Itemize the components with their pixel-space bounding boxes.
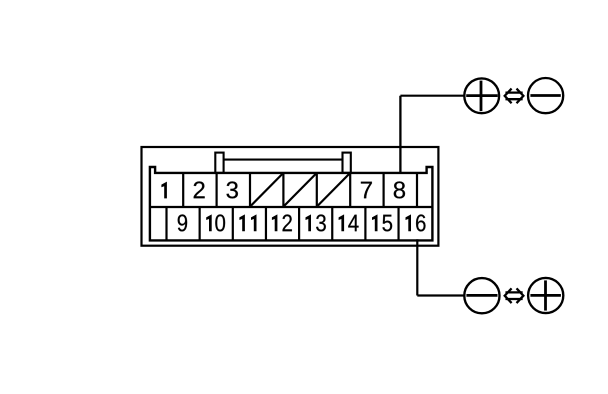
wire to battery minus (horizontal) [417,294,464,296]
bottom row cell borders [167,207,399,240]
wire from pin 16 (vertical) [416,239,418,295]
pin 11 label [239,214,245,231]
pin row divider [150,206,433,208]
terminal circle minus (top) [528,78,563,113]
minus sign (bottom) [466,294,497,297]
plus sign (bottom) [544,280,547,310]
latch left post [215,153,223,173]
pin 15 label digit 1 [372,214,378,231]
pin 15 label digit 5 [382,215,392,232]
pin 13 label digit 1 [306,214,312,231]
wire to battery positive (horizontal) [400,95,464,97]
pin 12 label digit 1 [272,214,278,231]
pin 7 label [361,182,372,199]
pin 16 label digit 6 [416,214,425,231]
wire from pin 8 (vertical) [399,96,401,173]
pin 16 label digit 1 [406,214,412,231]
plus sign (top) [480,81,483,112]
blocked cavity 6 diagonal [318,174,349,206]
double arrow (bottom) [505,289,524,302]
latch bar [224,159,343,161]
pin 1 label [161,182,167,199]
double arrow (top) [505,89,524,102]
top row cell borders [183,173,417,207]
pin 12 label digit 2 [283,214,292,231]
pin 3 label [227,181,238,198]
pin 2 label [194,181,205,198]
terminal circle plus (top) [464,78,499,113]
latch right post [343,153,351,173]
blocked cavity 5 diagonal [284,174,315,206]
pin 10 label digit 0 [215,214,225,231]
connector inner housing with corner tabs [150,167,433,240]
minus sign (top) [530,94,560,97]
terminal circle plus (bottom) [528,278,563,313]
pin 8 label [394,181,405,198]
pin 14 label digit 4 [348,215,358,232]
pin 14 label digit 1 [339,214,345,231]
blocked cavity 4 diagonal [251,174,282,206]
terminal circle minus (bottom) [464,278,499,313]
pin 13 label digit 3 [316,214,326,231]
connector outer shell [142,147,439,246]
pin 9 label [178,214,187,231]
pin 10 label digit 1 [206,214,212,231]
